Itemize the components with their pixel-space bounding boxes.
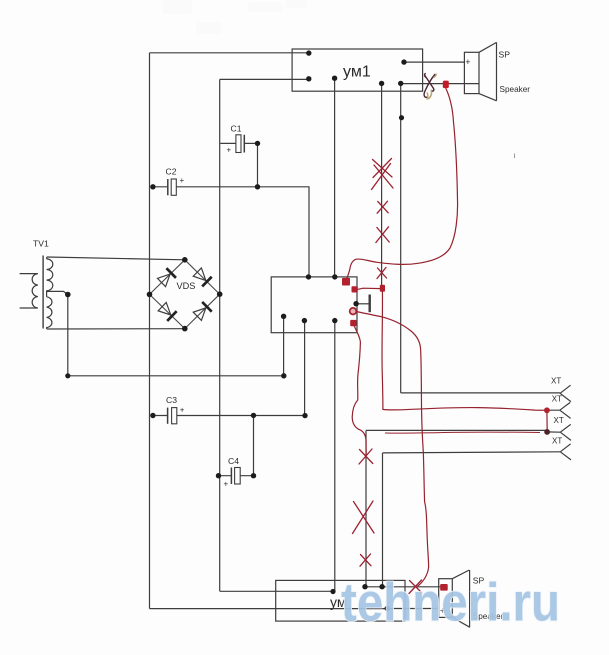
svg-text:C1: C1 — [231, 124, 242, 134]
red X small mark on XT3 branch lower — [360, 554, 371, 566]
connector XT3 fork — [560, 424, 571, 440]
svg-text:TV1: TV1 — [33, 239, 49, 249]
wire bottom feed from second rail to UM — [220, 590, 333, 592]
red junction at XT2 — [544, 407, 550, 413]
wire middle block pin down to UM block — [334, 322, 336, 591]
red pad end of speaker return wire (top) — [443, 81, 449, 89]
wire UM1 pin to middle block top pin — [334, 78, 336, 276]
junction on XT1 branch below UM1 — [399, 115, 404, 120]
junction transformer center tap — [65, 292, 71, 298]
diode VDS top-left — [157, 267, 177, 287]
junction middle block right pin — [353, 301, 358, 306]
junction UM pin XT3 branch — [362, 584, 367, 589]
red X mark on top speaker wire — [424, 74, 435, 98]
wire C3 line from left rail to middle block pin 305 — [153, 415, 305, 417]
wire C-line from left rail through C2 toward middle block pin — [153, 187, 309, 277]
red pad at middle block lower — [350, 320, 356, 326]
transformer TV1 secondary upper winding — [47, 257, 53, 291]
stray tick mark right side — [514, 154, 516, 159]
svg-text:+: + — [224, 480, 229, 489]
junction C3 at left rail — [150, 413, 155, 418]
speaker SP bottom body — [439, 579, 453, 618]
junction pin 305 on C3 line — [302, 413, 307, 418]
red X small mark above node — [377, 268, 387, 279]
node bridge right — [217, 291, 223, 297]
wire XT3 line to UM block — [366, 430, 560, 586]
svg-text:+: + — [180, 406, 185, 415]
wire center tap horizontal to middle block pin — [68, 375, 284, 377]
svg-text:ум1: ум1 — [343, 64, 371, 81]
wire red from top speaker minus down and left to middle block — [346, 88, 458, 281]
junction C4 right — [251, 473, 256, 478]
svg-text:Speaker: Speaker — [500, 85, 531, 94]
wire UM1 pin down (cut by red X marks) — [381, 84, 383, 287]
svg-text:C2: C2 — [166, 167, 177, 177]
junction middle block top pin A — [306, 274, 311, 279]
connector XT2 fork — [548, 402, 571, 418]
speaker SP top horn — [479, 42, 497, 100]
junction center tap corner — [65, 373, 70, 378]
svg-text:XT: XT — [551, 377, 561, 386]
wire top feed from left rail to UM1 — [150, 52, 309, 54]
wire center tap down — [67, 295, 69, 376]
capacitor C3 plates — [167, 408, 169, 424]
svg-text:+: + — [180, 176, 185, 185]
svg-text:XT: XT — [554, 416, 564, 425]
wire red squiggle from lower red pad down to XT3 branch — [352, 325, 366, 456]
svg-text:+: + — [227, 146, 232, 155]
wire red from node down to XT2 line — [382, 292, 547, 411]
wire UM output to bottom speaker plus — [365, 586, 444, 588]
junction C4 left on second rail — [216, 473, 221, 478]
amplifier block UM body — [276, 580, 405, 621]
wire red from ring terminal curving down to bottom speaker — [357, 312, 429, 587]
wire UM output to bottom speaker minus — [387, 608, 439, 610]
junction UM1 pin 4 — [379, 81, 384, 86]
wire bottom feed from left rail to UM — [150, 608, 388, 610]
node bridge bottom — [182, 326, 188, 332]
connector XT4 fork — [560, 444, 571, 460]
red X big mark on XT3 branch middle — [353, 501, 375, 534]
svg-text:C4: C4 — [228, 456, 239, 466]
capacitor C4 wires — [219, 416, 254, 476]
red X curl strokes near top speaker — [427, 74, 437, 100]
junction UM1 input pin 2 — [306, 76, 311, 81]
junction middle block bottom pin B — [302, 318, 307, 323]
svg-text:XT: XT — [552, 437, 562, 446]
red X mark on bottom speaker wire — [409, 580, 422, 594]
junction UM pin XT4 branch — [379, 584, 384, 589]
connector XT1 fork — [560, 385, 571, 401]
transformer TV1 primary winding — [20, 274, 38, 308]
junction UM1 input pin 1 — [306, 50, 311, 55]
red ring terminal on middle block — [350, 308, 357, 315]
junction C1 top right — [255, 141, 260, 146]
svg-text:VDS: VDS — [177, 281, 196, 291]
wire secondary bottom lead to bridge bottom node — [47, 328, 185, 330]
capacitor C4 plates — [230, 468, 232, 485]
wire middle block pin down to center-tap line — [283, 318, 285, 376]
red pad at middle block upper — [342, 278, 350, 286]
wire UM1 output to speaker minus — [401, 83, 480, 85]
junction center tap line to middle block pin — [281, 373, 286, 378]
transformer TV1 core — [42, 256, 44, 329]
red X mark 3 on UM1 branch — [376, 227, 389, 243]
wire second feed to UM1 — [220, 78, 309, 80]
svg-text:XT: XT — [552, 394, 562, 403]
wire middle block right pin with bar terminal — [357, 303, 369, 305]
transformer TV1 secondary lower winding — [47, 297, 52, 329]
junction middle block top pin B — [332, 274, 337, 279]
junction UM pin at rail feed — [330, 589, 335, 594]
speaker SP bottom horn — [452, 570, 470, 627]
speaker SP top body — [464, 52, 479, 93]
diode VDS bottom-right — [193, 301, 213, 321]
junction UM1 output pin 6 — [401, 59, 406, 64]
middle rectifier-filter block body — [271, 277, 357, 333]
capacitor C1 plates — [236, 135, 241, 153]
junction UM1 pin 5 — [398, 81, 403, 86]
diode VDS top-right — [193, 267, 213, 287]
wire second supply rail (vertical) — [219, 79, 221, 591]
faint smudges top of scan — [162, 0, 307, 34]
junction middle block bottom pin A — [281, 314, 286, 319]
wire UM1 output to speaker plus — [404, 61, 464, 63]
capacitor C1 wires — [220, 143, 257, 186]
svg-text:tehneri.ru: tehneri.ru — [341, 573, 560, 633]
junction C1 bottom on C-line — [255, 184, 260, 189]
amplifier block UM1 body — [292, 49, 423, 91]
red X big double mark on UM1 branch — [372, 159, 394, 190]
junction UM1 pin 3 — [332, 76, 337, 81]
red node pad on cut branch — [380, 285, 385, 292]
red pad at middle block second — [352, 286, 358, 292]
wire transformer center tap — [47, 291, 68, 297]
junction C2 at left rail — [150, 184, 155, 189]
wire red wavy along XT3 line — [385, 432, 540, 433]
diode VDS bottom-left — [157, 302, 177, 322]
wire red XT2 to XT3 — [546, 410, 548, 432]
wire red from node to red pad on middle block — [358, 288, 382, 289]
wire UM1 pin down to XT1 — [401, 84, 560, 393]
diode bridge VDS diamond edges — [150, 260, 220, 329]
svg-text:+: + — [465, 57, 470, 67]
junction UM bottom feed pin — [385, 606, 390, 611]
wire XT4 line to UM block — [383, 452, 561, 587]
red X mark on XT3 branch upper — [359, 449, 373, 464]
wire left supply rail (vertical) — [149, 53, 151, 609]
junction middle block bottom pin C — [332, 318, 337, 323]
svg-text:SP: SP — [499, 50, 511, 60]
junction C4 riser on C3 line — [251, 413, 256, 418]
node bridge left — [147, 292, 153, 298]
svg-text:C3: C3 — [166, 395, 177, 405]
node bridge top — [182, 257, 188, 263]
capacitor C2 plates — [167, 179, 169, 195]
wire secondary top lead to bridge top node — [47, 257, 185, 260]
junction dark at XT3 — [544, 429, 550, 435]
red pad inside bottom speaker — [440, 584, 448, 591]
red X mark 2 on UM1 branch — [377, 201, 388, 213]
wire middle block pin down to C3 line — [304, 322, 306, 416]
